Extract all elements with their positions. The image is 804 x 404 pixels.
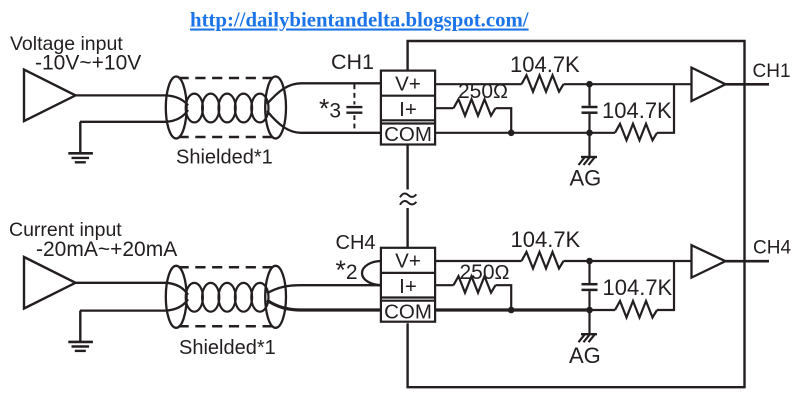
wire: COM rail	[435, 132, 615, 134]
terminal block CH1	[381, 71, 435, 145]
wire: cable to terminal (bottom conductor)	[267, 111, 382, 133]
wire: shunt to COM (CH4)	[496, 285, 512, 310]
shielded cable: left shield ellipse	[166, 266, 187, 328]
resistor 104.7K (CH1 input)	[522, 75, 564, 92]
resistor 104.7K (CH4 input)	[522, 252, 564, 269]
capacitor *3 (dashed, between V+ and COM wires)	[353, 85, 355, 132]
wire: resistor to op-amp	[564, 83, 692, 85]
svg-text:Shielded*1: Shielded*1	[179, 337, 276, 359]
wire: feedback resistor up to op-amp input (CH4)	[657, 261, 674, 310]
shielded cable: right shield ellipse	[265, 266, 286, 328]
svg-text:104.7K: 104.7K	[511, 227, 581, 252]
svg-text:COM: COM	[384, 123, 432, 146]
shielded cable: left shield ellipse	[166, 77, 187, 139]
svg-text:I+: I+	[399, 98, 417, 121]
wire: cable to terminal (top conductor)	[267, 83, 382, 104]
resistor 250 ohm (CH1 current shunt)	[454, 99, 496, 116]
resistor 250 ohm (CH4 current shunt)	[454, 276, 496, 293]
junction: shunt/COM	[508, 130, 515, 137]
svg-text:104.7K: 104.7K	[603, 275, 673, 300]
svg-text:http://dailybientandelta.blogs: http://dailybientandelta.blogspot.com/	[190, 9, 529, 32]
wire: ground to cable (bottom conductor)	[80, 110, 188, 122]
resistor 104.7K (CH1 feedback)	[615, 124, 657, 141]
op-amp CH1	[692, 68, 726, 101]
wire: resistor to op-amp (CH4)	[564, 260, 692, 262]
wire: I+ to resistor (CH4)	[435, 284, 453, 286]
svg-text:I+: I+	[399, 275, 417, 298]
svg-text:104.7K: 104.7K	[510, 52, 580, 77]
op-amp CH4	[692, 245, 726, 277]
svg-text:104.7K: 104.7K	[602, 98, 672, 123]
svg-text:V+: V+	[395, 250, 421, 273]
wire: COM rail (CH4, thick)	[435, 308, 590, 311]
wire: shunt to COM	[496, 108, 512, 133]
terminal block CH4	[381, 248, 435, 322]
svg-text:-10V~+10V: -10V~+10V	[35, 52, 141, 75]
module box (outer rectangle, left edge interrupted by terminal blocks and break)	[408, 41, 745, 387]
capacitor (CH1 filter)	[588, 84, 590, 106]
shielded cable: twisted pair coil	[186, 94, 203, 123]
wire: feedback resistor up to op-amp input	[657, 84, 674, 133]
wire: input to cable (top conductor)	[76, 95, 189, 105]
AG ground (CH1)	[588, 133, 590, 157]
node: COM filter node	[586, 130, 593, 137]
break symbol (channels omitted)	[400, 193, 416, 204]
wire: input to cable (top conductor)	[76, 283, 189, 295]
shielded cable: dashed shield outline	[179, 266, 275, 269]
shielded cable: right shield ellipse	[265, 77, 286, 139]
wire: V+ to resistor (CH4)	[435, 260, 521, 262]
wire: cable to terminal (top conductor)	[267, 285, 382, 293]
AG ground (CH4)	[588, 310, 590, 334]
svg-text:250Ω: 250Ω	[460, 261, 510, 284]
voltage input source (triangle)	[24, 70, 76, 122]
node: V+ filter node	[586, 81, 593, 88]
svg-text:V+: V+	[395, 73, 421, 96]
wire: ground to cable (bottom conductor)	[80, 299, 188, 310]
jumper *2 (V+ to I+)	[362, 261, 382, 285]
ground (current input common)	[79, 311, 81, 342]
svg-text:CH1: CH1	[753, 61, 791, 82]
capacitor (CH4 filter)	[588, 261, 590, 283]
wire: CH4 output	[726, 260, 770, 263]
svg-text:CH4: CH4	[336, 232, 376, 254]
svg-text:-20mA~+20mA: -20mA~+20mA	[36, 238, 177, 261]
wire: cable to terminal (bottom conductor)	[267, 300, 382, 310]
current input source (triangle)	[24, 257, 76, 309]
junction: shunt/COM (CH4)	[508, 307, 515, 314]
wire: I+ to resistor	[435, 107, 453, 109]
svg-text:250Ω: 250Ω	[458, 80, 508, 103]
node: V+ filter node (CH4)	[586, 258, 593, 265]
shielded cable: twisted pair coil	[186, 283, 203, 312]
svg-text:Shielded*1: Shielded*1	[176, 147, 273, 169]
wire: V+ to resistor	[435, 83, 521, 85]
shielded cable: dashed shield outline	[179, 77, 275, 80]
svg-text:CH4: CH4	[753, 238, 791, 259]
node: COM filter node (CH4)	[586, 307, 593, 314]
svg-text:AG: AG	[570, 166, 602, 191]
svg-text:COM: COM	[384, 300, 432, 323]
ground (voltage input common)	[79, 122, 81, 153]
wire: CH1 output	[726, 83, 770, 86]
resistor 104.7K (CH4 feedback)	[615, 301, 657, 318]
svg-text:CH1: CH1	[331, 50, 374, 74]
svg-text:AG: AG	[569, 343, 601, 368]
